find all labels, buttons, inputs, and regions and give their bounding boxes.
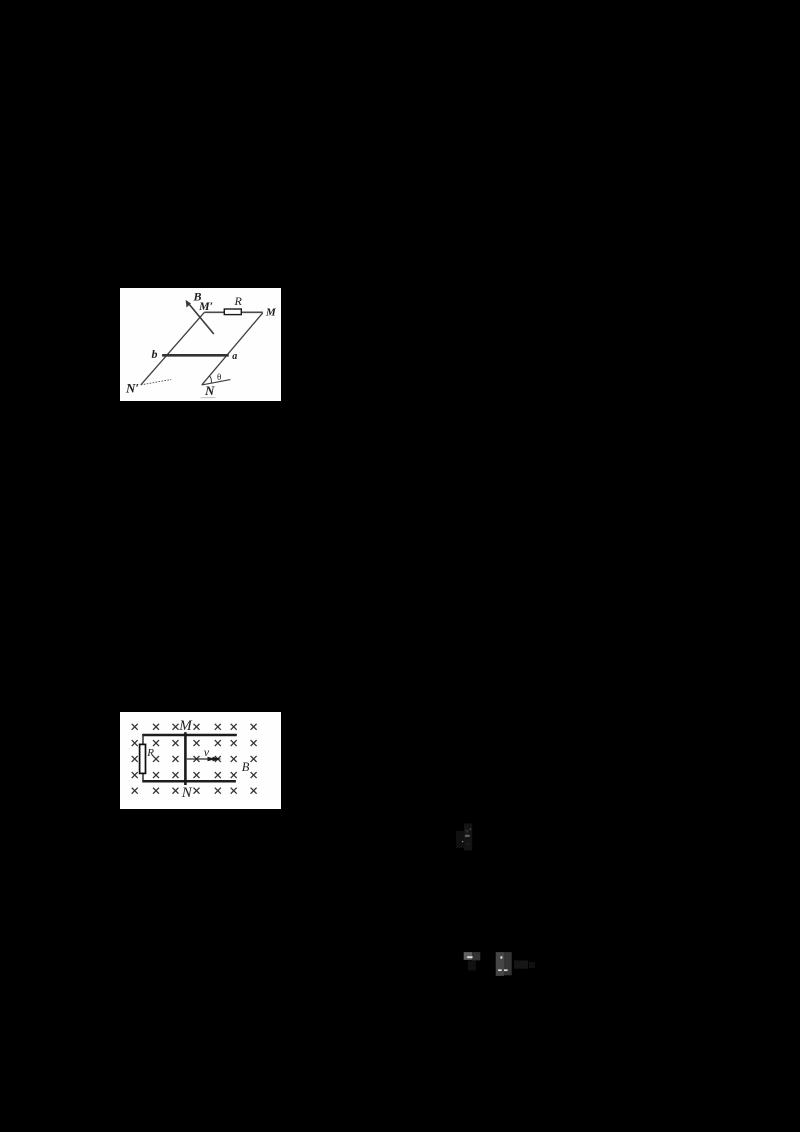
faint artifact smudge 1 [456, 823, 473, 851]
svg-text:N′: N′ [125, 380, 139, 395]
svg-text:θ: θ [217, 371, 221, 381]
label N' [125, 380, 139, 395]
svg-text:B: B [241, 760, 249, 774]
B-field arrow [185, 299, 213, 333]
label N [180, 784, 192, 800]
svg-text:M′: M′ [198, 299, 213, 313]
label b [151, 346, 157, 360]
label M [178, 717, 193, 733]
svg-text:b: b [151, 346, 157, 360]
label theta [217, 371, 221, 381]
svg-text:R: R [233, 294, 242, 308]
baseline stub at N with angle [201, 379, 230, 384]
svg-text:N: N [180, 784, 192, 800]
resistor R [139, 744, 145, 773]
wire: left connector [142, 734, 144, 781]
figure panel 2: horizontal rails in B field (into page) [120, 712, 281, 809]
label a [232, 350, 237, 361]
svg-text:v: v [203, 744, 209, 758]
wire: top rail M'M [204, 311, 262, 313]
wire: top rail [142, 733, 237, 736]
label M [265, 306, 277, 318]
wire: right rail MN [201, 312, 262, 384]
angle arc theta [209, 375, 211, 382]
bar ab (slider) [162, 353, 229, 356]
svg-text:N: N [204, 383, 215, 398]
faint artifact smudge 2 [455, 945, 540, 981]
label B (field) [192, 289, 201, 303]
label R [146, 746, 154, 758]
figure panel 1: inclined rails with resistor R [120, 288, 281, 401]
svg-text:M: M [178, 717, 193, 733]
label R [233, 294, 242, 308]
velocity arrow v [186, 756, 221, 761]
svg-text:M: M [265, 306, 277, 318]
resistor R [224, 309, 241, 315]
label M' [198, 299, 213, 313]
wire: left rail M'N' [140, 312, 204, 385]
wire: bottom rail [142, 779, 236, 782]
label B (field) [241, 760, 249, 774]
flux crosses grid [131, 723, 256, 793]
baseline stub at N' (dotted) [140, 379, 170, 384]
bar MN (slider) [184, 732, 187, 785]
label v [203, 744, 209, 758]
svg-text:a: a [232, 350, 237, 361]
label N [204, 383, 215, 398]
svg-text:R: R [146, 746, 154, 758]
faint underline artifact [200, 396, 215, 398]
